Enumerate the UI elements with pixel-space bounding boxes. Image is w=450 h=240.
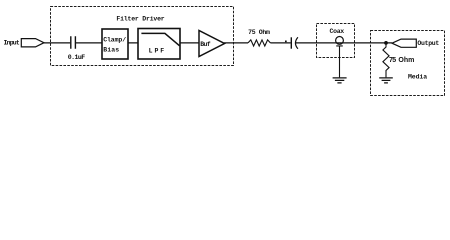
svg-text:Input: Input: [4, 40, 20, 47]
svg-text:Coax: Coax: [330, 28, 345, 35]
svg-text:Output: Output: [417, 40, 439, 47]
svg-text:Filter Driver: Filter Driver: [116, 16, 164, 23]
svg-text:75Ohm: 75Ohm: [389, 57, 414, 64]
svg-text:0.1uF: 0.1uF: [68, 54, 85, 61]
svg-text:Bias: Bias: [103, 47, 119, 54]
svg-text:Media: Media: [408, 74, 427, 81]
svg-text:Buf: Buf: [200, 41, 211, 48]
svg-text:75Ohm: 75Ohm: [248, 29, 270, 36]
svg-text:LPF: LPF: [149, 48, 165, 55]
svg-text:Clamp/: Clamp/: [103, 36, 126, 43]
